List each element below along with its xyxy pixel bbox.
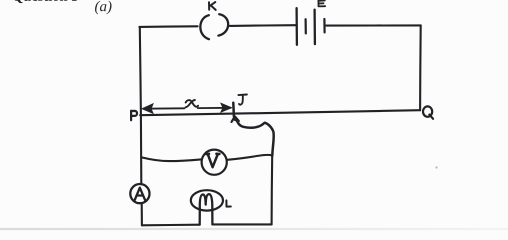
wire: bottom left segment bbox=[142, 224, 200, 227]
wire: potentiometer wire P to Q bbox=[140, 110, 420, 115]
battery E plate short left bbox=[305, 19, 307, 33]
lamp L filament coil bbox=[200, 194, 213, 225]
wire: key to battery bbox=[230, 24, 296, 27]
battery E plate long right bbox=[313, 10, 316, 45]
label E bbox=[318, 0, 325, 6]
svg-text:Question 5: Question 5 bbox=[12, 0, 78, 5]
wire: bottom right segment bbox=[212, 223, 271, 225]
voltmeter V circle bbox=[202, 150, 227, 175]
faint scan smudge along bottom bbox=[0, 0, 1, 1]
label K bbox=[209, 2, 216, 10]
scan speck bbox=[435, 166, 437, 168]
label J (handwritten) bbox=[238, 95, 247, 105]
dimension arrowhead left (at P) bbox=[142, 104, 153, 113]
dimension arrowhead right (at J) bbox=[221, 103, 231, 112]
dimension line for x bbox=[144, 107, 231, 110]
switch K right arc bbox=[218, 14, 228, 35]
wire: top-left horizontal to key bbox=[139, 25, 197, 28]
wire: right branch vertical down to bottom loop bbox=[271, 156, 274, 225]
ammeter A circle bbox=[130, 184, 149, 203]
jockey contact arrowhead bbox=[232, 116, 239, 122]
battery E plate long left bbox=[295, 8, 298, 45]
lamp L envelope ellipse bbox=[191, 190, 223, 210]
label A bbox=[135, 188, 145, 200]
jockey blade at J bbox=[232, 103, 235, 117]
wire: voltmeter lead right bbox=[227, 155, 272, 160]
wire: battery to top-right corner bbox=[326, 24, 421, 26]
wire: right vertical down to Q bbox=[419, 25, 422, 110]
wire: curved lead from jockey to right branch bbox=[236, 119, 274, 156]
wire: left vertical below ammeter bbox=[141, 203, 143, 225]
label Q bbox=[423, 106, 433, 118]
label L bbox=[226, 200, 230, 206]
wire: left vertical P-side (top corner down to ammeter) bbox=[140, 27, 142, 184]
label V bbox=[207, 154, 220, 168]
label x (handwritten) bbox=[186, 100, 199, 107]
switch K left arc bbox=[200, 15, 209, 39]
svg-text:(a): (a) bbox=[94, 0, 112, 15]
label P bbox=[131, 111, 137, 121]
wire: voltmeter lead left bbox=[142, 158, 201, 162]
battery E plate short right bbox=[323, 19, 325, 32]
